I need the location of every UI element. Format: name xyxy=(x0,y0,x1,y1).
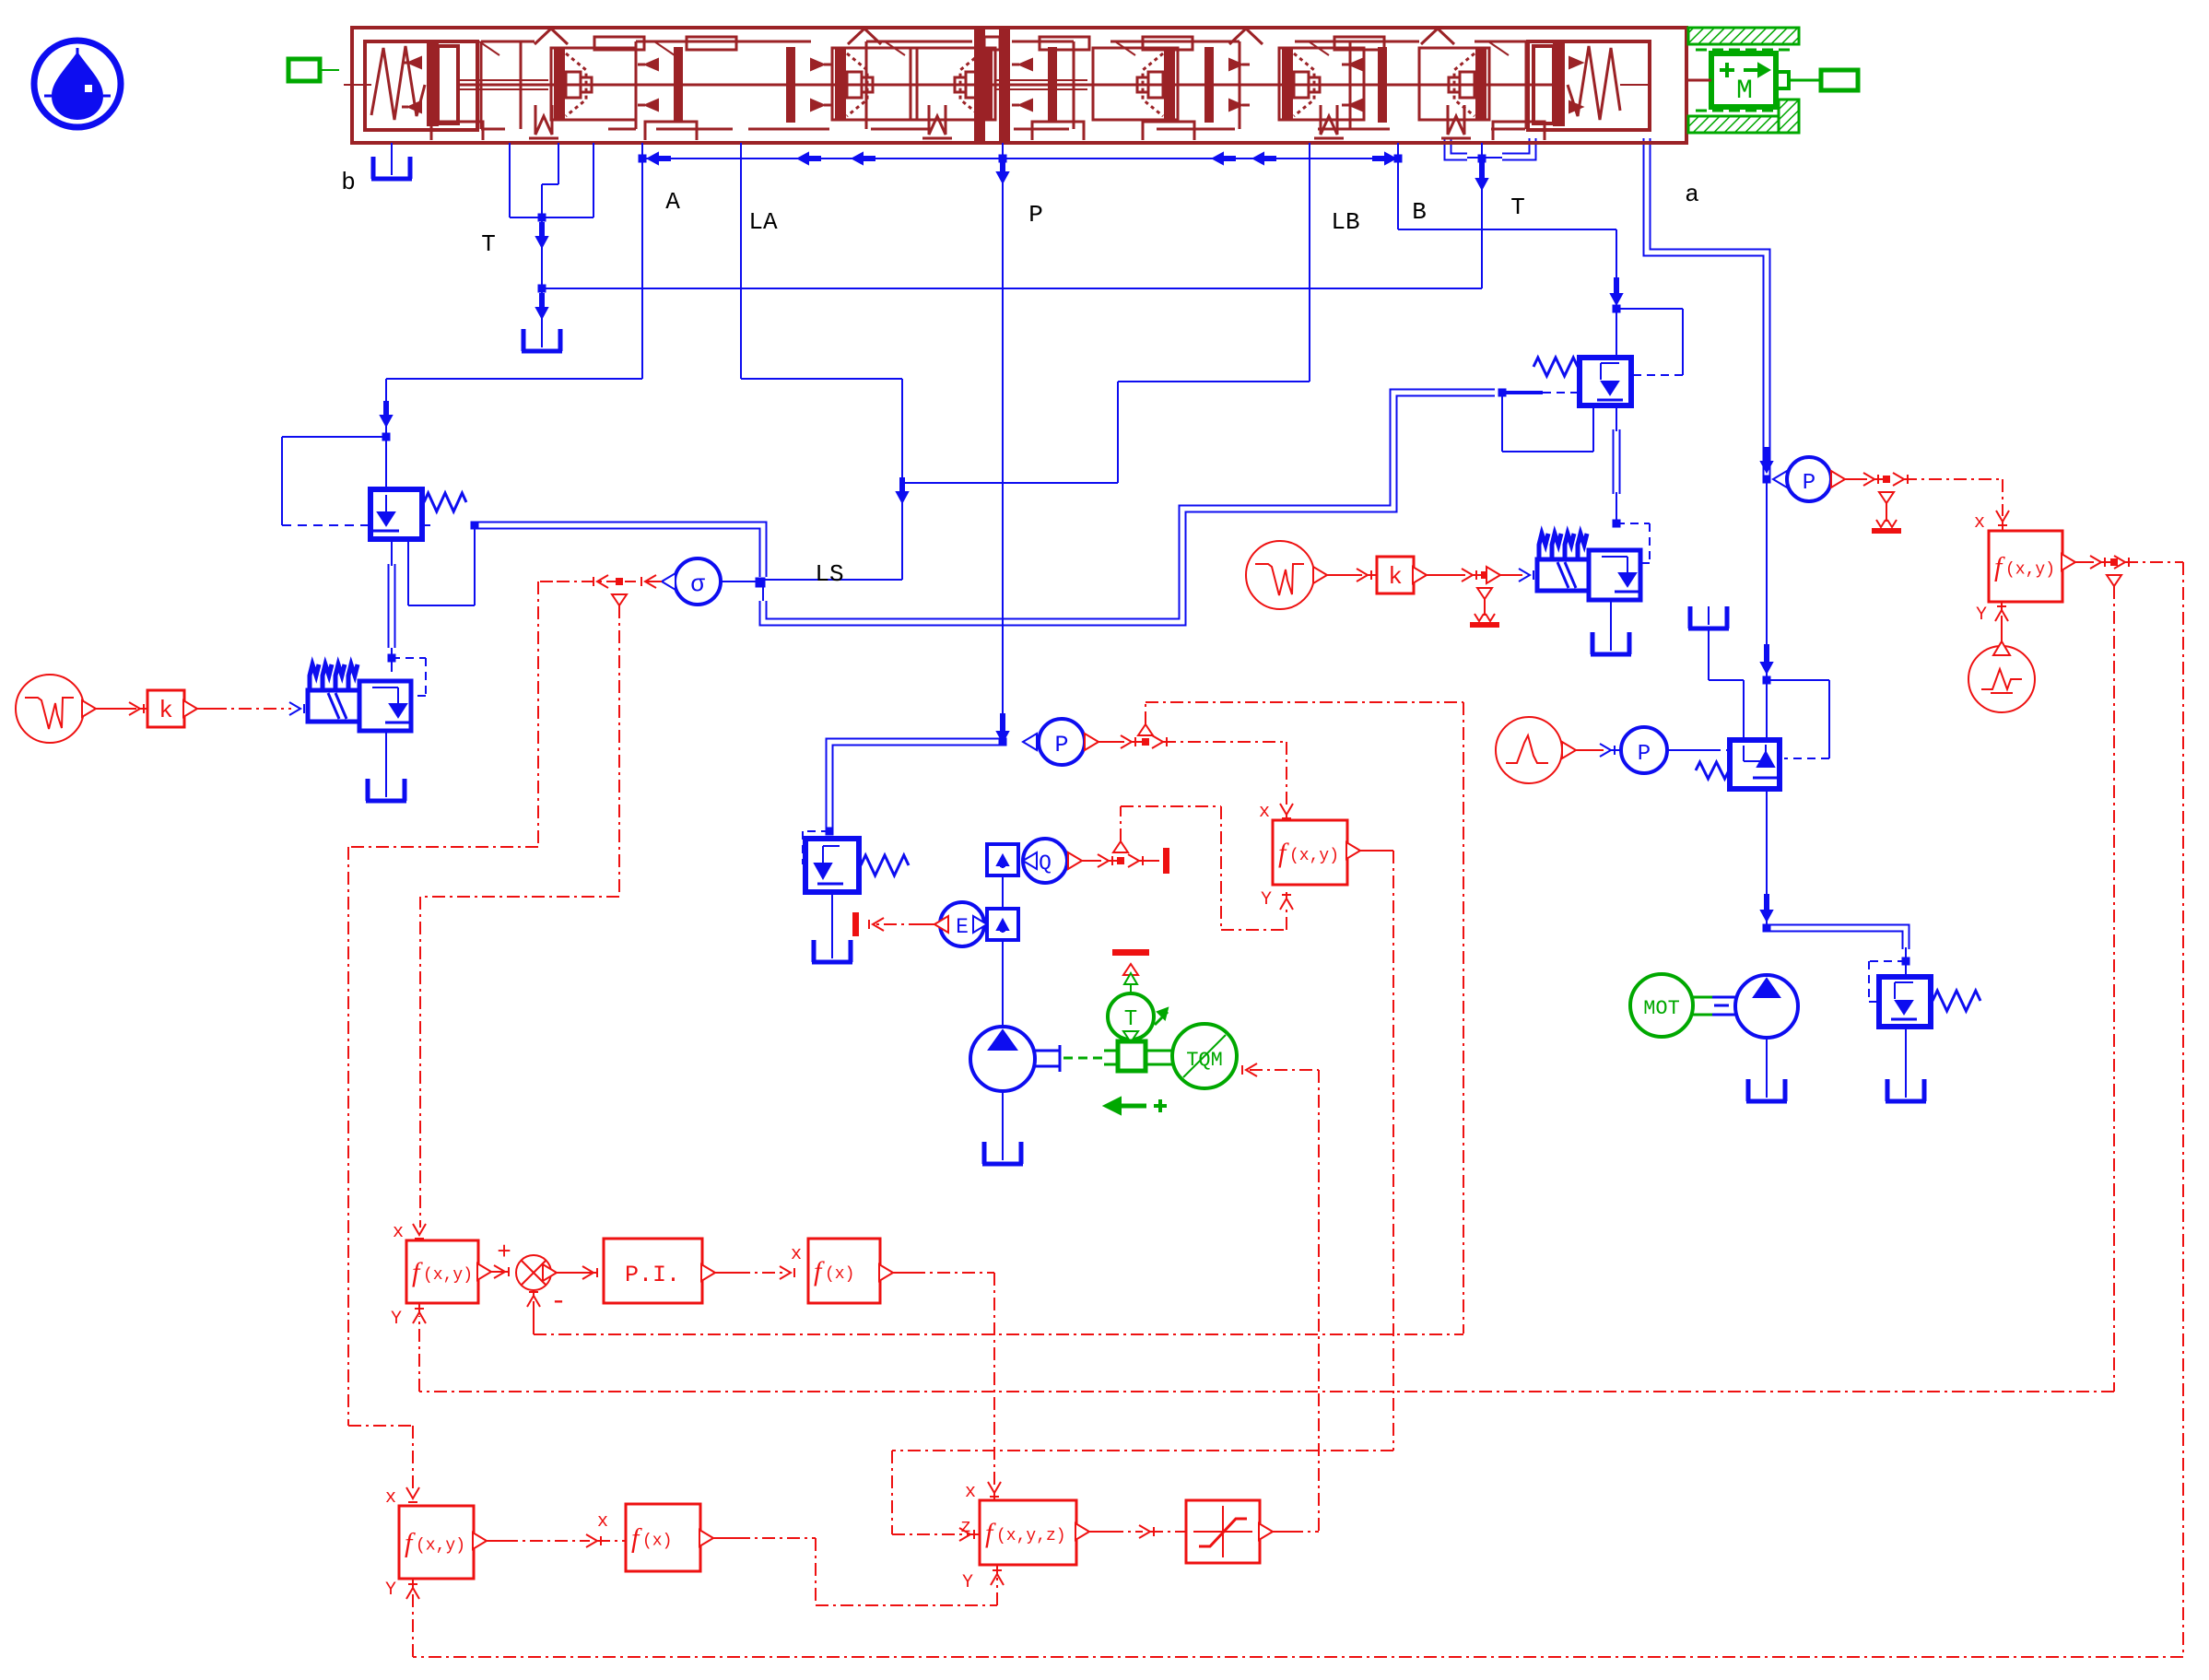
sum junction xyxy=(497,1239,567,1318)
tank B sol xyxy=(1591,632,1631,654)
left solenoid connector xyxy=(288,59,339,81)
wire PI out xyxy=(701,1244,802,1281)
label a xyxy=(1685,181,1699,208)
wire LB down xyxy=(1309,143,1310,382)
wire V to fxy2 xyxy=(1993,602,2010,655)
sensor E xyxy=(940,902,987,946)
wire P mid to valve xyxy=(1667,749,1729,751)
junction A rail xyxy=(639,153,671,164)
wire Pr to fxy2 xyxy=(1893,473,2009,531)
signal source 1 xyxy=(16,675,84,743)
svg-text:Q: Q xyxy=(1039,852,1052,875)
wire fxb out xyxy=(699,1530,1004,1605)
junction k2 tee xyxy=(1477,571,1492,616)
label T left xyxy=(481,230,496,258)
svg-text:x: x xyxy=(597,1511,608,1533)
junction Q signal xyxy=(1113,841,1128,864)
svg-text:z: z xyxy=(960,1517,971,1538)
wire B sol in xyxy=(1616,492,1617,523)
svg-text:(x): (x) xyxy=(642,1533,672,1551)
wire sat out xyxy=(1259,1523,1319,1540)
wire minus feedback xyxy=(534,1333,1463,1335)
function fx PI row xyxy=(808,1239,880,1303)
check box Q xyxy=(987,844,1018,875)
junction fxy2 out xyxy=(2107,558,2121,586)
svg-text:b: b xyxy=(341,169,356,196)
junction P rail xyxy=(997,155,1008,183)
svg-text:P: P xyxy=(1028,201,1043,229)
wire T1 tank stem xyxy=(541,288,543,329)
sensor P right xyxy=(1773,457,1831,501)
svg-text:Y: Y xyxy=(1261,889,1272,910)
wire solenoid outlet xyxy=(385,731,387,779)
svg-text:(x,y): (x,y) xyxy=(423,1266,473,1285)
svg-text:E: E xyxy=(956,915,969,939)
sensor T torque xyxy=(1108,993,1154,1042)
wire B relief out xyxy=(1616,405,1617,431)
wire B relief in xyxy=(1616,309,1617,358)
junction LS start xyxy=(471,522,479,530)
junction sigma split xyxy=(612,578,627,605)
svg-text:x: x xyxy=(1974,512,1985,534)
junction Pr xyxy=(1879,476,1894,522)
wire pump tank xyxy=(1002,1091,1004,1142)
tank T1 xyxy=(522,329,562,351)
label b xyxy=(341,169,356,196)
wire comp inlet xyxy=(385,437,387,489)
wire solenoid inlet xyxy=(391,658,393,672)
sensor P mid xyxy=(1621,727,1667,773)
svg-text:B: B xyxy=(1412,198,1427,226)
labels fxy center xyxy=(1259,802,1272,910)
pipe a down xyxy=(1647,138,1767,477)
svg-text:LA: LA xyxy=(748,208,778,236)
sensor TQM xyxy=(1172,1024,1237,1088)
wire A comp feed xyxy=(381,379,392,437)
wire fxyb out xyxy=(473,1511,626,1549)
TQM bottom arrows xyxy=(1104,1098,1167,1114)
junction T2 xyxy=(1476,155,1487,190)
svg-text:A: A xyxy=(665,188,680,216)
svg-text:(x): (x) xyxy=(825,1265,854,1284)
reducing valve B (solenoid) xyxy=(1537,534,1640,600)
wire TQM signal in xyxy=(1242,1063,1319,1532)
coupler square xyxy=(1104,1041,1146,1071)
wire fb inner xyxy=(413,586,2114,1392)
function fxy right xyxy=(1989,531,2062,602)
junction P signal xyxy=(1138,724,1153,746)
wire comp pilot loop xyxy=(282,437,386,525)
wire Pr out xyxy=(1831,471,1886,488)
sensor Q xyxy=(1023,839,1067,883)
pump main xyxy=(970,1027,1035,1091)
wire a through xyxy=(1761,680,1772,928)
wire LS left xyxy=(763,579,902,581)
function fx bottom xyxy=(626,1504,700,1571)
relief valve 2 xyxy=(1879,977,1980,1027)
wire comp pilot right xyxy=(422,524,435,526)
junction A comp xyxy=(382,433,391,441)
relief valve P xyxy=(805,839,909,892)
junction P main xyxy=(999,738,1007,746)
svg-text:Y: Y xyxy=(962,1572,973,1593)
tank P relief xyxy=(812,940,852,962)
junction solenoid pilot xyxy=(388,654,396,663)
wire src2-k2 xyxy=(1313,567,1377,583)
junction B rail xyxy=(1394,155,1403,163)
wire P relief pilot dash xyxy=(803,831,829,864)
tank b xyxy=(371,157,412,179)
wire Q to fxy y xyxy=(1121,806,1293,930)
svg-text:(x,y): (x,y) xyxy=(2005,561,2055,580)
wire fxyPI out xyxy=(477,1263,509,1280)
wire P sensor out xyxy=(1085,734,1146,750)
label T right xyxy=(1510,194,1525,221)
wire b drain xyxy=(391,143,393,157)
svg-text:LS: LS xyxy=(815,560,843,588)
labels fxyz xyxy=(960,1482,976,1593)
svg-text:k: k xyxy=(159,697,173,724)
tank relief2 xyxy=(1886,1079,1926,1101)
svg-text:(x,y,z): (x,y,z) xyxy=(996,1527,1066,1545)
check box E xyxy=(987,909,1018,940)
function fxy PI row xyxy=(406,1240,478,1303)
wire B sol out xyxy=(1610,600,1612,632)
wire sum minus xyxy=(527,1290,540,1334)
svg-text:x: x xyxy=(965,1482,976,1503)
wire k2-valve xyxy=(1486,567,1533,583)
wire T2 down xyxy=(1481,143,1483,288)
svg-text:-: - xyxy=(550,1286,567,1318)
junction a relief2 xyxy=(1763,924,1771,933)
pipe P relief branch xyxy=(829,742,1003,829)
wire a down2 xyxy=(1761,479,1772,680)
pressure compensator A xyxy=(370,489,466,539)
hook T2 left xyxy=(1448,138,1478,158)
svg-text:x: x xyxy=(385,1487,396,1509)
pipe LS down loop xyxy=(763,393,1495,622)
label A xyxy=(665,188,680,216)
reducing valve A (solenoid) xyxy=(308,664,411,731)
pipe A comp out xyxy=(388,564,396,658)
junction LS sigma xyxy=(756,578,766,588)
junction relief2 pilot xyxy=(1902,957,1910,966)
junction T1b xyxy=(536,285,547,319)
pipe LS up xyxy=(475,525,763,577)
logo fluid drop xyxy=(34,41,121,127)
wire B relief pilot xyxy=(1616,309,1683,375)
label LS xyxy=(815,560,843,588)
junction a pilot xyxy=(1763,676,1771,685)
wire A down xyxy=(641,143,643,379)
svg-text:LB: LB xyxy=(1331,208,1359,236)
svg-text:MOT: MOT xyxy=(1643,997,1680,1020)
svg-text:Y: Y xyxy=(1976,605,1987,626)
svg-text:(x,y): (x,y) xyxy=(1289,847,1339,865)
svg-text:(x,y): (x,y) xyxy=(416,1537,465,1556)
saturation block xyxy=(1186,1500,1260,1563)
svg-text:P: P xyxy=(1803,471,1815,496)
wire a pilot loop xyxy=(1767,680,1829,758)
svg-text:x: x xyxy=(393,1222,404,1243)
wire sum out xyxy=(543,1264,597,1281)
wire B down2 xyxy=(1611,229,1622,309)
wire relief2 in xyxy=(1905,961,1907,977)
label LA xyxy=(748,208,778,236)
sensor sigma xyxy=(662,558,760,605)
wire sigma down branch xyxy=(420,605,619,1228)
svg-text:P: P xyxy=(1638,742,1651,767)
junction B relief xyxy=(1613,305,1621,313)
junction LS B-relief xyxy=(1498,389,1579,397)
signal source 2 xyxy=(1246,541,1314,609)
shaft to TQM xyxy=(1146,1051,1173,1064)
wire fx out xyxy=(879,1264,1001,1500)
terminator k2 xyxy=(1470,614,1499,625)
wire P to fxy x xyxy=(1152,735,1293,820)
TQM top arrow xyxy=(1155,1008,1168,1025)
pipe a relief2 xyxy=(1767,928,1906,961)
wire comp loop down xyxy=(408,525,475,605)
labels fxy right xyxy=(1974,512,1987,626)
pipe B out xyxy=(1613,429,1621,494)
wire src1-k xyxy=(82,700,147,717)
function fxyz xyxy=(980,1500,1076,1565)
function fxy bottom xyxy=(399,1506,474,1579)
terminator Pr xyxy=(1872,520,1901,531)
terminator above T xyxy=(1112,949,1149,993)
gain k1 xyxy=(147,690,184,727)
wire LA horiz xyxy=(741,378,902,380)
sensor P main xyxy=(1023,719,1085,765)
counterbalance valve a xyxy=(1696,740,1780,789)
wire pump2 tank xyxy=(1766,1038,1768,1079)
wire A horiz xyxy=(386,378,642,380)
proportional spool valve block xyxy=(344,28,1686,143)
svg-text:M: M xyxy=(1736,76,1753,107)
shaft green dash xyxy=(1063,1057,1104,1060)
wire fb outer xyxy=(406,556,2183,1657)
wire P down xyxy=(997,143,1008,742)
signal source ramp xyxy=(1496,717,1562,783)
pump 2 xyxy=(1735,975,1798,1038)
junction a sensor xyxy=(1761,448,1772,484)
pump shaft xyxy=(1035,1045,1060,1072)
junction T1 xyxy=(536,214,547,248)
wire k2 out xyxy=(1413,567,1485,583)
wire Q out xyxy=(1068,852,1121,869)
wire E out xyxy=(852,912,948,936)
wire relief2 out xyxy=(1905,1027,1907,1079)
wire B down xyxy=(1398,143,1616,229)
wire P pump xyxy=(1002,875,1004,1028)
svg-text:P.I.: P.I. xyxy=(625,1262,680,1288)
signal source V xyxy=(1968,646,2035,712)
svg-text:x: x xyxy=(1259,802,1270,823)
function fxy center xyxy=(1273,820,1347,885)
label B xyxy=(1412,198,1427,226)
relief valve B xyxy=(1533,358,1631,405)
wire LA down2 xyxy=(897,379,908,580)
wire sigma out xyxy=(625,575,662,588)
junction B sol pilot xyxy=(1613,520,1621,528)
wire LA down xyxy=(740,143,742,379)
svg-text:x: x xyxy=(791,1244,802,1265)
label LB xyxy=(1331,208,1359,236)
wire A rail xyxy=(642,153,1398,164)
wire comp outlet xyxy=(391,539,393,566)
hook T2 right xyxy=(1486,138,1533,158)
svg-text:a: a xyxy=(1685,181,1699,208)
mass load M with friction walls xyxy=(1686,28,1858,133)
tank pump main xyxy=(982,1142,1023,1164)
svg-text:T: T xyxy=(481,230,496,258)
label P xyxy=(1028,201,1043,229)
wire fxy2 out xyxy=(2062,554,2114,570)
wire a tank branch xyxy=(1709,629,1744,740)
svg-text:+: + xyxy=(497,1239,511,1266)
svg-text:T: T xyxy=(1510,194,1525,221)
wire T rail xyxy=(542,288,1482,289)
wire sigma left branch 2 xyxy=(348,847,538,1493)
wire P relief out xyxy=(831,892,833,940)
wire solenoid pilot dash xyxy=(392,658,426,696)
svg-text:σ: σ xyxy=(690,570,705,598)
wire T1 ports xyxy=(510,143,593,217)
svg-text:k: k xyxy=(1388,563,1403,591)
tank solenoid A xyxy=(366,779,406,801)
wire B sol pilot dash xyxy=(1616,523,1650,563)
wire Q terminator xyxy=(1128,848,1169,874)
labels fxy bottom xyxy=(385,1487,419,1601)
wire T1 down xyxy=(541,217,543,288)
wire fxyz out xyxy=(1075,1523,1186,1540)
wire LB horiz xyxy=(902,382,1310,483)
wire LS relief loop xyxy=(1502,393,1593,452)
controller PI xyxy=(604,1239,702,1303)
svg-text:Y: Y xyxy=(391,1309,402,1330)
labels fxy PI row xyxy=(391,1222,426,1330)
svg-text:P: P xyxy=(1054,732,1068,758)
tank a top xyxy=(1688,606,1729,629)
wire fxy center out xyxy=(892,842,1393,1541)
wire relief2 pilot dash xyxy=(1869,961,1906,1002)
wire P signal up xyxy=(1146,702,1463,1333)
junction P relief xyxy=(826,828,834,836)
svg-text:T: T xyxy=(1124,1007,1137,1032)
tank pump2 xyxy=(1746,1079,1787,1101)
motor MOT xyxy=(1630,974,1693,1037)
wire k1-valve xyxy=(183,700,304,717)
svg-text:Y: Y xyxy=(385,1580,396,1601)
gain k2 xyxy=(1377,557,1414,593)
wire ramp-P xyxy=(1562,742,1621,758)
shaft MOT xyxy=(1693,997,1735,1015)
wire sigma left branch xyxy=(538,575,619,847)
